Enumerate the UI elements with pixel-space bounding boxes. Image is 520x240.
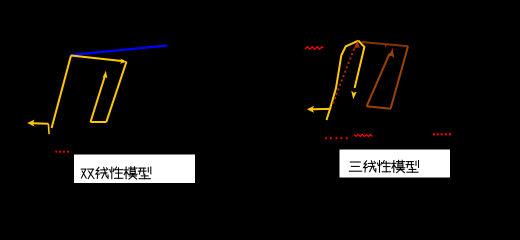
- red squiggle (top-left of right diagram): [305, 47, 323, 49]
- red dotted reloading arrow inside yellow V: [332, 49, 355, 104]
- yellow axis elbow tail (short drop below origin): [47, 124, 50, 135]
- white label box: bilinear model: [74, 155, 195, 184]
- white label box: trilinear model: [340, 150, 451, 178]
- red zigzag under right diagram: [354, 135, 372, 137]
- yellow top edge with right arrowhead: [71, 56, 124, 62]
- yellow left (elastic loading) edge: [52, 56, 71, 129]
- text 三线性模型 (drawn strokes): [349, 160, 418, 172]
- yellow unloading curve with down arrowhead: [355, 41, 365, 88]
- dark brown quad: bottom edge: [367, 106, 391, 109]
- red dotted row (right of right diagram): [433, 133, 451, 135]
- red dotted row (below-left of right diagram): [325, 137, 348, 139]
- dark red arrowhead at yellow peak (pointing up-left): [354, 41, 360, 50]
- yellow trilinear loading curve (with tail below origin): [327, 41, 359, 120]
- text 双线性模型 (drawn strokes): [81, 167, 151, 179]
- yellow axis arrow (left-pointing): [27, 120, 48, 127]
- yellow right (unloading) edge: [106, 62, 126, 122]
- yellow bottom edge: [91, 121, 107, 123]
- red dotted mark under left diagram: [55, 151, 69, 153]
- dark brown quad: top edge: [362, 42, 409, 46]
- dark brown reloading arrow (up-right) inside quad: [367, 54, 390, 107]
- dark brown quad: right edge: [391, 46, 408, 108]
- yellow inner reloading line with up arrowhead: [91, 76, 105, 122]
- blue post-yield skeleton line: [70, 46, 168, 56]
- yellow axis arrow (left-pointing): [307, 106, 330, 113]
